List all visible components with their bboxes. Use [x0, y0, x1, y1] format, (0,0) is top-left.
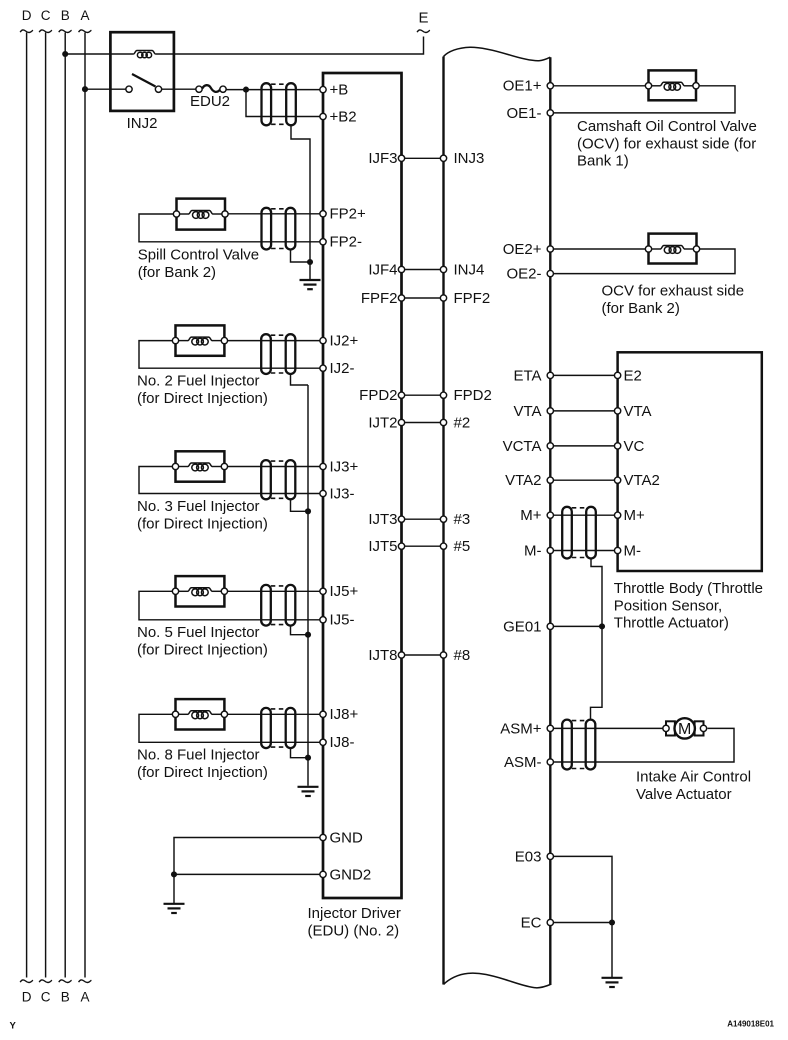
svg-text:Injector Driver: Injector Driver	[308, 905, 401, 922]
terminal #2	[440, 419, 446, 425]
shield drain IJ3	[291, 499, 309, 511]
motor terminals	[663, 725, 669, 731]
shielded cable for +B/+B2	[262, 83, 272, 125]
rail D break bottom	[20, 980, 33, 983]
ECU terminal M+	[547, 512, 553, 518]
shield drain IJ8	[291, 748, 309, 758]
fuse EDU2	[202, 85, 220, 92]
svg-text:GND: GND	[330, 829, 364, 846]
svg-text:No. 8 Fuel Injector: No. 8 Fuel Injector	[137, 747, 260, 764]
wire +B2 branch	[246, 90, 323, 117]
svg-text:IJ5-: IJ5-	[330, 612, 355, 629]
terminal IJ5-	[320, 617, 326, 623]
motor M1 body	[675, 718, 695, 738]
motor brushes	[666, 721, 675, 735]
wire injector 8 plus	[224, 713, 323, 715]
svg-text:Throttle Body (Throttle: Throttle Body (Throttle	[614, 580, 763, 597]
wire injector 3 plus	[224, 466, 323, 468]
terminal FPF2	[440, 295, 446, 301]
svg-text:A149018E01: A149018E01	[727, 1019, 774, 1028]
wire fuse to +B	[223, 89, 323, 91]
svg-text:#8: #8	[454, 647, 471, 664]
throttle body box	[618, 352, 762, 571]
wire IJF4 to INJ4	[402, 269, 444, 271]
ECU bottom break	[444, 973, 551, 988]
terminal +B2	[320, 113, 326, 119]
terminal IJ8+	[320, 711, 326, 717]
svg-text:Intake Air Control: Intake Air Control	[636, 769, 751, 786]
wire injector 2 plus	[224, 340, 323, 342]
svg-text:#2: #2	[454, 414, 471, 431]
ECU left edge	[442, 57, 444, 985]
break E	[417, 30, 430, 33]
svg-text:IJF4: IJF4	[368, 261, 397, 278]
ECU top break	[444, 47, 551, 61]
terminal FPD2	[440, 392, 446, 398]
wire GE01 to ASM shield	[591, 626, 603, 720]
svg-text:(for Bank 2): (for Bank 2)	[602, 300, 680, 317]
svg-text:+B2: +B2	[330, 108, 357, 125]
rail A wire	[84, 33, 86, 978]
svg-text:(for Direct Injection): (for Direct Injection)	[137, 390, 268, 407]
ECU terminal EC	[547, 919, 553, 925]
wire OE2+ to OCV2	[550, 248, 648, 250]
wire E03	[550, 856, 612, 922]
node GND junction	[171, 871, 177, 877]
svg-text:B: B	[61, 990, 70, 1005]
svg-text:IJT3: IJT3	[368, 511, 397, 528]
rail C wire	[45, 33, 47, 978]
svg-text:(for Direct Injection): (for Direct Injection)	[137, 642, 268, 659]
wire FPF2 to FPF2	[402, 297, 444, 299]
svg-text:OE2-: OE2-	[506, 266, 541, 283]
node A junction	[82, 86, 88, 92]
svg-text:M-: M-	[524, 542, 542, 559]
svg-text:No. 3 Fuel Injector: No. 3 Fuel Injector	[137, 498, 260, 515]
wire injector 8 minus	[139, 714, 323, 742]
svg-text:E2: E2	[624, 367, 642, 384]
shielded cable for FP2	[262, 208, 272, 250]
rail B break top	[59, 30, 72, 33]
terminal IJT2	[398, 419, 404, 425]
svg-text:(for Bank 2): (for Bank 2)	[138, 264, 216, 281]
node GE01 junction	[599, 623, 605, 629]
svg-text:OE2+: OE2+	[503, 241, 542, 258]
svg-text:OCV for exhaust side: OCV for exhaust side	[602, 283, 745, 300]
terminal +B	[320, 86, 326, 92]
shielded cable IJ2	[261, 334, 271, 374]
shield drain IJ5	[291, 626, 309, 635]
svg-text:VTA: VTA	[513, 403, 541, 420]
wire M+ row	[550, 514, 617, 516]
terminal IJ2-	[320, 365, 326, 371]
terminal IJT8	[398, 652, 404, 658]
svg-text:GE01: GE01	[503, 618, 541, 635]
terminal FP2-	[320, 239, 326, 245]
wire injector 5 minus	[139, 591, 323, 620]
svg-text:IJ3+: IJ3+	[330, 458, 359, 475]
node shield drain junction	[307, 259, 313, 265]
wire VCTA-VC	[550, 445, 617, 447]
svg-text:EC: EC	[521, 914, 542, 931]
ground for injector shields	[298, 787, 319, 796]
throttle terminal VTA	[614, 408, 620, 414]
relay INJ2 switch blade	[132, 74, 156, 87]
svg-text:#5: #5	[454, 538, 471, 555]
svg-text:Position Sensor,: Position Sensor,	[614, 597, 722, 614]
svg-text:M+: M+	[624, 507, 645, 524]
throttle terminal VC	[614, 443, 620, 449]
wire relay coil row B to E	[65, 53, 133, 55]
shield drain IJ2	[291, 374, 309, 385]
svg-text:IJ5+: IJ5+	[330, 583, 359, 600]
svg-text:Throttle Actuator): Throttle Actuator)	[614, 615, 729, 632]
wire GND	[174, 838, 323, 875]
terminal INJ3	[440, 155, 446, 161]
throttle terminal M-	[614, 547, 620, 553]
wire ETA-E2	[550, 374, 617, 376]
ECU terminal M-	[547, 547, 553, 553]
svg-text:Valve Actuator: Valve Actuator	[636, 786, 732, 803]
injector No.5 coil	[188, 588, 212, 592]
ECU terminal OE1-	[547, 110, 553, 116]
terminal #8	[440, 652, 446, 658]
OCV2 terminals	[645, 246, 651, 252]
svg-text:ASM-: ASM-	[504, 754, 542, 771]
svg-text:A: A	[80, 990, 89, 1005]
rail B break bottom	[59, 980, 72, 983]
svg-text:VTA: VTA	[624, 403, 652, 420]
camshaft OCV bank1 coil	[660, 82, 684, 86]
terminal IJ2+	[320, 337, 326, 343]
svg-text:FP2+: FP2+	[330, 206, 367, 223]
shielded cable for motor	[562, 507, 572, 559]
svg-text:Y: Y	[10, 1021, 17, 1032]
camshaft OCV bank1 box	[649, 70, 697, 100]
rail C break bottom	[39, 980, 52, 983]
ECU terminal GE01	[547, 623, 553, 629]
injector No.5 terminals	[172, 588, 178, 594]
terminal GND	[320, 834, 326, 840]
rail A break bottom	[79, 980, 92, 983]
shield drain motor	[591, 559, 602, 627]
ECU terminal ASM-	[547, 759, 553, 765]
svg-text:VCTA: VCTA	[503, 438, 542, 455]
shield drain +B	[291, 125, 310, 279]
wire GE01	[550, 625, 602, 627]
svg-text:M: M	[678, 721, 691, 738]
svg-text:B: B	[61, 8, 70, 23]
injector No.8 coil	[188, 711, 212, 715]
ECU right edge	[549, 57, 551, 985]
terminal #5	[440, 543, 446, 549]
ground for GND	[164, 904, 185, 913]
ECU terminal VTA2	[547, 477, 553, 483]
wire M- row	[550, 550, 617, 552]
OCV1 terminals	[645, 83, 651, 89]
svg-text:D: D	[22, 990, 32, 1005]
svg-text:Bank 1): Bank 1)	[577, 153, 629, 170]
svg-text:IJT5: IJT5	[368, 538, 397, 555]
svg-text:#3: #3	[454, 511, 471, 528]
svg-text:VTA2: VTA2	[505, 472, 541, 489]
svg-text:E03: E03	[515, 848, 542, 865]
svg-text:IJ3-: IJ3-	[330, 485, 355, 502]
wire injector 5 plus	[224, 590, 323, 592]
wire VTA-VTA	[550, 410, 617, 412]
relay INJ2 coil	[133, 51, 155, 55]
wire relay switch to fuse	[159, 88, 200, 90]
svg-text:FPF2: FPF2	[361, 290, 398, 307]
node drain IJ5	[305, 632, 311, 638]
injector No.5 box	[176, 576, 225, 606]
wire IJT5 to #5	[402, 545, 444, 547]
svg-text:A: A	[80, 8, 89, 23]
injector No.3 terminals	[172, 463, 178, 469]
svg-text:INJ4: INJ4	[454, 261, 485, 278]
svg-text:IJT2: IJT2	[368, 414, 397, 431]
wire injector 3 minus	[139, 467, 323, 494]
terminal IJ3-	[320, 490, 326, 496]
svg-text:OE1+: OE1+	[503, 78, 542, 95]
injector No.2 terminals	[172, 337, 178, 343]
svg-text:C: C	[41, 990, 51, 1005]
injector No.3 coil	[188, 463, 212, 467]
wire IJT8 to #8	[402, 654, 444, 656]
svg-text:VC: VC	[624, 438, 645, 455]
ECU terminal ETA	[547, 372, 553, 378]
wire ASM+ to motor	[550, 727, 663, 729]
terminal IJT3	[398, 516, 404, 522]
wire IJT2 to #2	[402, 422, 444, 424]
wire injector 2 minus	[139, 341, 323, 369]
svg-text:Camshaft Oil Control Valve: Camshaft Oil Control Valve	[577, 118, 757, 135]
wire OE1+ to OCV1	[550, 85, 648, 87]
svg-text:ASM+: ASM+	[500, 720, 542, 737]
svg-text:IJ2+: IJ2+	[330, 333, 359, 350]
ECU terminal VTA	[547, 408, 553, 414]
shield drain FP2	[291, 250, 311, 263]
shielded cable IJ3	[261, 460, 271, 499]
terminal FPF2	[398, 295, 404, 301]
wire GND to ground	[173, 874, 175, 903]
svg-text:FPF2: FPF2	[454, 290, 491, 307]
injector No.8 terminals	[172, 711, 178, 717]
injector No.2 coil	[188, 337, 212, 341]
wire EC	[550, 922, 612, 924]
terminal IJ5+	[320, 588, 326, 594]
terminal IJF4	[398, 266, 404, 272]
injector No.2 box	[176, 325, 225, 355]
spill control valve box	[177, 199, 226, 230]
svg-text:(EDU) (No. 2): (EDU) (No. 2)	[308, 923, 400, 940]
wire IJT3 to #3	[402, 518, 444, 520]
wire common shield drain	[307, 385, 309, 786]
rail A break top	[79, 30, 92, 33]
terminal IJ8-	[320, 739, 326, 745]
terminal FP2+	[320, 211, 326, 217]
injector No.3 box	[176, 451, 225, 481]
svg-text:No. 5 Fuel Injector: No. 5 Fuel Injector	[137, 624, 260, 641]
shielded cable IJ5	[261, 585, 271, 626]
terminal IJT5	[398, 543, 404, 549]
terminal IJ3+	[320, 463, 326, 469]
injector No.8 box	[176, 699, 225, 729]
wire OCV2 return	[550, 249, 735, 274]
node drain IJ3	[305, 508, 311, 514]
svg-text:(for Direct Injection): (for Direct Injection)	[137, 515, 268, 532]
relay INJ2 switch contacts	[126, 86, 132, 92]
svg-text:Spill Control Valve: Spill Control Valve	[138, 247, 259, 264]
ECU terminal E03	[547, 853, 553, 859]
OCV bank2 coil	[660, 246, 684, 250]
svg-text:IJF3: IJF3	[368, 150, 397, 167]
shielded cable IJ8	[261, 708, 271, 748]
wire FPD2 to FPD2	[402, 394, 444, 396]
wire OCV1 return	[550, 86, 735, 113]
wire IJF3 to INJ3	[402, 157, 444, 159]
ECU terminal VCTA	[547, 443, 553, 449]
svg-text:IJ2-: IJ2-	[330, 360, 355, 377]
terminal IJF3	[398, 155, 404, 161]
svg-text:E: E	[418, 9, 428, 26]
node +B junction	[243, 87, 249, 93]
svg-text:IJ8-: IJ8-	[330, 734, 355, 751]
wire spill valve to FP2+	[225, 213, 323, 215]
shielded cable for ASM	[562, 720, 572, 770]
svg-text:M+: M+	[520, 507, 541, 524]
svg-text:INJ2: INJ2	[127, 115, 158, 132]
svg-text:EDU2: EDU2	[190, 93, 230, 110]
throttle terminal E2	[614, 372, 620, 378]
svg-text:No. 2 Fuel Injector: No. 2 Fuel Injector	[137, 373, 260, 390]
svg-text:FPD2: FPD2	[359, 387, 397, 404]
spill valve terminals	[173, 211, 179, 217]
throttle terminal VTA2	[614, 477, 620, 483]
terminal GND2	[320, 871, 326, 877]
svg-text:D: D	[22, 8, 32, 23]
wire VTA2-VTA2	[550, 479, 617, 481]
ECU terminal OE2+	[547, 246, 553, 252]
throttle terminal M+	[614, 512, 620, 518]
wire GND2	[174, 873, 323, 875]
ground for EC	[602, 978, 623, 987]
wire EC to ground	[611, 923, 613, 978]
OCV bank2 box	[649, 234, 697, 264]
svg-text:+B: +B	[330, 82, 349, 99]
rail C break top	[39, 30, 52, 33]
terminal INJ4	[440, 266, 446, 272]
spill control valve coil	[189, 211, 213, 215]
rail D break top	[20, 30, 33, 33]
ground for +B shield	[300, 280, 321, 289]
relay INJ2 box	[110, 32, 173, 111]
rail B wire	[64, 33, 66, 978]
ECU terminal OE2-	[547, 270, 553, 276]
node drain IJ8	[305, 755, 311, 761]
svg-text:FPD2: FPD2	[454, 387, 492, 404]
svg-text:OE1-: OE1-	[506, 105, 541, 122]
svg-text:FP2-: FP2-	[330, 234, 363, 251]
svg-text:IJ8+: IJ8+	[330, 706, 359, 723]
svg-text:(for Direct Injection): (for Direct Injection)	[137, 764, 268, 781]
svg-text:IJT8: IJT8	[368, 647, 397, 664]
node EC junction	[609, 919, 615, 925]
ECU terminal OE1+	[547, 83, 553, 89]
injector driver EDU box	[323, 73, 402, 898]
svg-text:ETA: ETA	[513, 367, 541, 384]
svg-text:INJ3: INJ3	[454, 150, 485, 167]
node B junction	[62, 51, 68, 57]
svg-text:C: C	[41, 8, 51, 23]
terminal #3	[440, 516, 446, 522]
rail D wire	[26, 33, 28, 978]
terminal FPD2	[398, 392, 404, 398]
wire spill valve to FP2-	[139, 214, 323, 242]
svg-text:GND2: GND2	[330, 866, 372, 883]
svg-text:M-: M-	[624, 542, 642, 559]
wire motor return	[550, 728, 734, 762]
wire A to relay switch	[85, 88, 129, 90]
svg-text:VTA2: VTA2	[624, 472, 660, 489]
ECU terminal ASM+	[547, 725, 553, 731]
svg-text:(OCV) for exhaust side (for: (OCV) for exhaust side (for	[577, 135, 756, 152]
